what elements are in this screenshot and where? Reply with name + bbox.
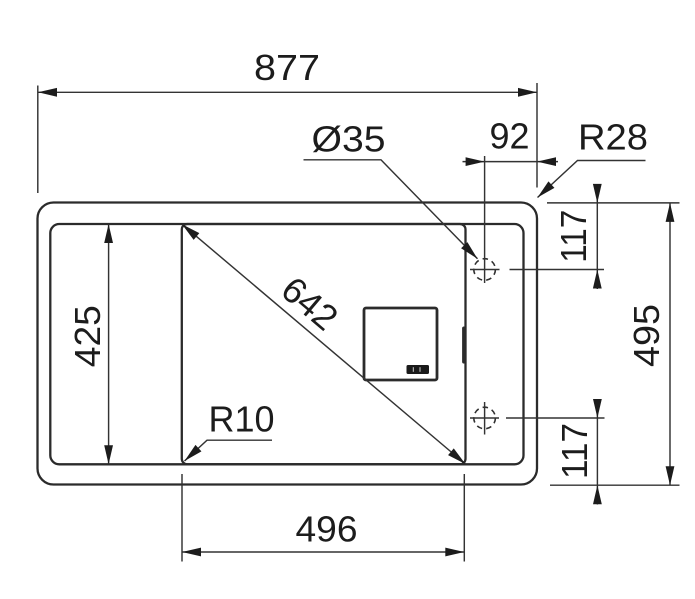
R28 leader arrow (535, 181, 555, 200)
bottom 117 reference line at hole2 (506, 417, 605, 419)
svg-text:496: 496 (296, 509, 358, 550)
425 bottom arrow (104, 445, 113, 464)
dim 877 line (38, 91, 537, 93)
dim 642 diagonal (182, 224, 465, 464)
svg-text:877: 877 (254, 47, 320, 88)
dia 35 leader arrow (461, 242, 481, 262)
dim 496 extension line left (181, 474, 183, 562)
877 right arrow (518, 88, 537, 97)
svg-text:Ø35: Ø35 (312, 119, 386, 160)
dim 92 extension / hole1 crosshair vertical (484, 156, 486, 283)
top 117 reference line at rim top (547, 202, 680, 204)
hole 2 crosshair vertical (484, 402, 486, 435)
dim 877 extension line left (37, 86, 39, 194)
top 117 lower arrow (593, 270, 602, 289)
425 top arrow (104, 224, 113, 243)
92 left arrow (outside, pointing right) (466, 157, 485, 166)
496 right arrow (445, 548, 464, 557)
877 left arrow (38, 88, 57, 97)
bottom 117 dim line (596, 399, 598, 505)
logo bar in square (407, 365, 430, 374)
svg-text:R10: R10 (209, 398, 275, 439)
top 117 dim line (596, 184, 598, 289)
bottom 117 reference line at rim bottom (550, 484, 680, 486)
dim 496 extension line right (463, 474, 465, 562)
496 left arrow (182, 548, 201, 557)
495 top arrow (666, 203, 675, 222)
R28 leader (538, 161, 646, 198)
dim 877 / 92 extension line right (536, 83, 538, 188)
hole 1 crosshair horizontal (470, 269, 500, 271)
495 bottom arrow (666, 466, 675, 485)
dim 92 line (463, 161, 559, 163)
dim 495 line (669, 203, 671, 485)
bowl (182, 224, 466, 464)
92 right arrow (outside, pointing left) (537, 157, 556, 166)
bottom 117 lower arrow (593, 485, 602, 504)
overflow slot (462, 327, 466, 364)
bottom 117 upper arrow (593, 399, 602, 418)
top 117 upper arrow (593, 184, 602, 203)
dia 35 leader (304, 160, 478, 259)
svg-text:R28: R28 (578, 117, 648, 158)
642 top-left arrow (179, 221, 199, 240)
accessory square (364, 308, 437, 380)
svg-text:425: 425 (67, 305, 108, 367)
R10 leader arrow (182, 445, 202, 464)
svg-text:92: 92 (490, 116, 530, 157)
R10 leader (185, 440, 273, 461)
sink rim inner edge (50, 224, 523, 464)
hole 2 crosshair horizontal (470, 417, 499, 419)
642 bottom-right arrow (448, 448, 468, 467)
hole 1 (tap hole, dashed circle) (474, 259, 496, 281)
top 117 reference line at hole1 (510, 269, 605, 271)
svg-text:117: 117 (554, 423, 595, 479)
dim 496 line (182, 551, 464, 553)
sink outer edge (38, 203, 538, 485)
dim 425 line (108, 224, 110, 464)
svg-text:495: 495 (626, 304, 667, 367)
hole 2 (tap hole, dashed circle) (474, 407, 496, 429)
svg-text:117: 117 (553, 210, 594, 263)
